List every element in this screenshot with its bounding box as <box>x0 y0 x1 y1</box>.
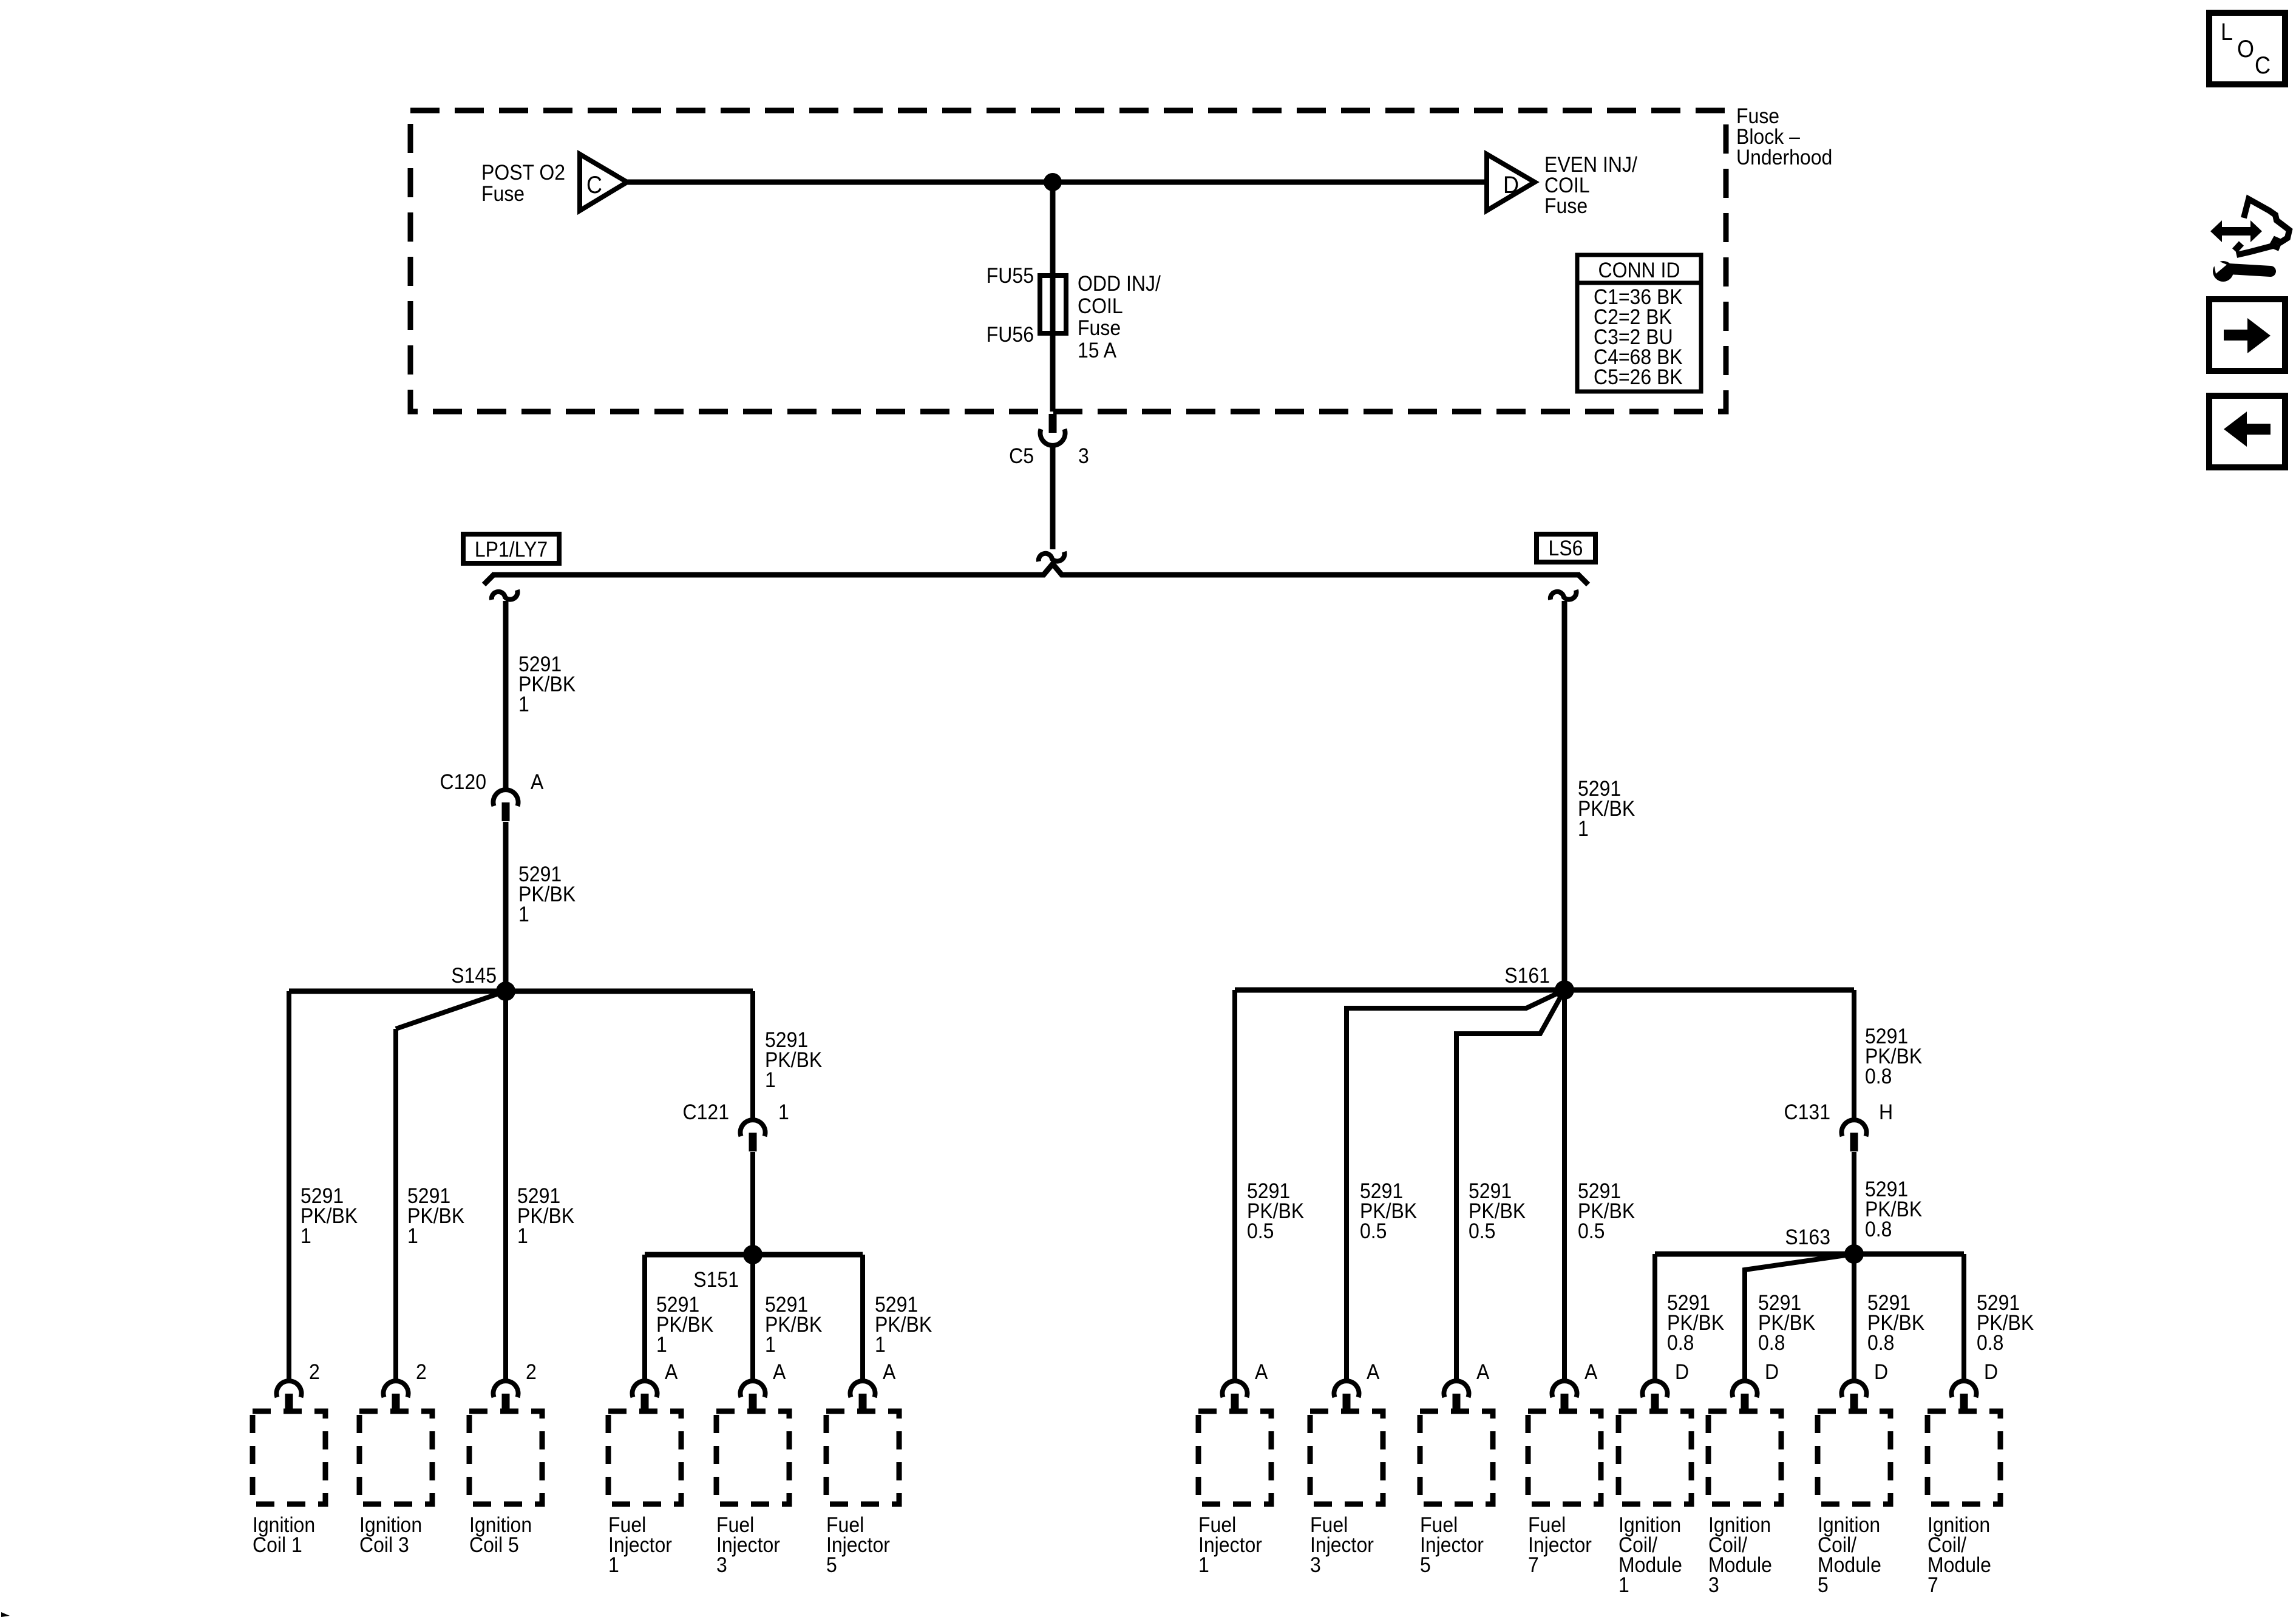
svg-text:1: 1 <box>765 1334 776 1357</box>
svg-text:0.8: 0.8 <box>1667 1332 1694 1355</box>
svg-text:1: 1 <box>875 1334 886 1357</box>
svg-text:C5=26 BK: C5=26 BK <box>1594 366 1683 390</box>
svg-text:FU55: FU55 <box>987 265 1034 288</box>
svg-text:2: 2 <box>526 1361 537 1385</box>
svg-text:Fuse: Fuse <box>481 183 525 206</box>
svg-text:C131: C131 <box>1784 1101 1830 1125</box>
svg-text:0.8: 0.8 <box>1758 1332 1785 1355</box>
svg-text:A: A <box>883 1361 896 1385</box>
svg-text:COIL: COIL <box>1078 295 1123 319</box>
svg-text:1: 1 <box>656 1334 667 1357</box>
svg-text:3: 3 <box>716 1554 727 1578</box>
svg-text:POST O2: POST O2 <box>481 161 565 185</box>
svg-text:Fuse: Fuse <box>1544 195 1588 219</box>
svg-text:1: 1 <box>1578 818 1589 841</box>
svg-text:D: D <box>1984 1361 1998 1385</box>
svg-text:0.8: 0.8 <box>1865 1065 1892 1089</box>
svg-text:C121: C121 <box>683 1101 729 1125</box>
svg-text:0.5: 0.5 <box>1247 1220 1274 1244</box>
svg-text:Coil 1: Coil 1 <box>253 1534 302 1558</box>
svg-text:5: 5 <box>826 1554 837 1578</box>
svg-text:1: 1 <box>407 1225 418 1249</box>
svg-text:7: 7 <box>1528 1554 1539 1578</box>
svg-text:A: A <box>1584 1361 1598 1385</box>
svg-text:D: D <box>1765 1361 1779 1385</box>
svg-text:C120: C120 <box>440 771 486 795</box>
svg-text:0.8: 0.8 <box>1867 1332 1894 1355</box>
svg-text:S161: S161 <box>1504 964 1550 988</box>
svg-text:A: A <box>773 1361 786 1385</box>
svg-text:1: 1 <box>765 1069 776 1093</box>
svg-text:Coil 3: Coil 3 <box>359 1534 409 1558</box>
svg-text:A: A <box>1255 1361 1268 1385</box>
svg-text:CONN ID: CONN ID <box>1598 259 1680 283</box>
svg-text:D: D <box>1503 172 1519 198</box>
svg-text:L: L <box>2221 19 2233 46</box>
svg-text:0.8: 0.8 <box>1977 1332 2003 1355</box>
svg-text:Fuse: Fuse <box>1078 317 1121 341</box>
svg-text:Fuse: Fuse <box>1736 105 1779 129</box>
svg-text:O: O <box>2237 36 2254 63</box>
svg-text:C: C <box>586 172 602 198</box>
svg-text:3: 3 <box>1310 1554 1321 1578</box>
svg-text:0.5: 0.5 <box>1578 1220 1605 1244</box>
svg-text:1: 1 <box>517 1225 528 1249</box>
svg-text:A: A <box>1367 1361 1380 1385</box>
svg-text:5: 5 <box>1818 1574 1829 1598</box>
svg-text:COIL: COIL <box>1544 174 1590 198</box>
svg-text:D: D <box>1675 1361 1689 1385</box>
svg-text:A: A <box>1476 1361 1490 1385</box>
svg-text:S163: S163 <box>1785 1226 1830 1250</box>
svg-text:0.5: 0.5 <box>1360 1220 1387 1244</box>
svg-text:1: 1 <box>518 903 529 927</box>
svg-text:Underhood: Underhood <box>1736 146 1832 170</box>
svg-text:A: A <box>665 1361 678 1385</box>
svg-text:D: D <box>1874 1361 1888 1385</box>
svg-text:C: C <box>2255 52 2271 79</box>
svg-text:2: 2 <box>416 1361 427 1385</box>
svg-text:S145: S145 <box>451 964 497 988</box>
svg-text:0.5: 0.5 <box>1469 1220 1495 1244</box>
svg-text:S151: S151 <box>693 1269 739 1292</box>
svg-text:5: 5 <box>1420 1554 1431 1578</box>
svg-text:LP1/LY7: LP1/LY7 <box>475 538 548 562</box>
svg-text:3: 3 <box>1708 1574 1719 1598</box>
svg-text:ODD INJ/: ODD INJ/ <box>1078 273 1161 296</box>
svg-text:Coil 5: Coil 5 <box>469 1534 519 1558</box>
svg-text:1: 1 <box>778 1101 789 1125</box>
svg-text:C5: C5 <box>1009 445 1034 469</box>
svg-text:H: H <box>1879 1101 1893 1125</box>
svg-text:1: 1 <box>301 1225 311 1249</box>
svg-text:3: 3 <box>1078 445 1089 469</box>
svg-text:2: 2 <box>309 1361 320 1385</box>
svg-text:1: 1 <box>1198 1554 1209 1578</box>
svg-text:LS6: LS6 <box>1549 537 1583 561</box>
svg-text:15 A: 15 A <box>1078 339 1117 363</box>
svg-text:Block –: Block – <box>1736 126 1800 149</box>
svg-text:1: 1 <box>608 1554 619 1578</box>
svg-text:1: 1 <box>518 693 529 717</box>
svg-text:EVEN INJ/: EVEN INJ/ <box>1544 154 1637 177</box>
svg-text:7: 7 <box>1927 1574 1938 1598</box>
svg-text:A: A <box>531 771 544 795</box>
svg-text:1: 1 <box>1618 1574 1629 1598</box>
svg-text:FU56: FU56 <box>987 324 1034 347</box>
svg-text:0.8: 0.8 <box>1865 1218 1892 1242</box>
